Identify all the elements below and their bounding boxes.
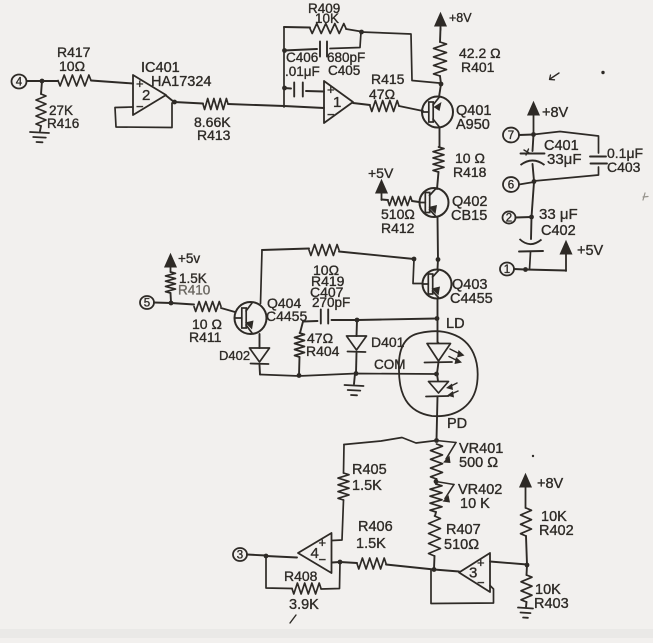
junction LD line (435, 316, 440, 321)
svg-text:R412: R412 (381, 220, 415, 236)
wire to Q403 base (413, 259, 422, 284)
svg-text:C402: C402 (541, 223, 576, 239)
node 6 (503, 177, 534, 192)
svg-text:3.9K: 3.9K (289, 597, 319, 613)
svg-text:2: 2 (506, 213, 512, 225)
capacitor C406 .01uF (284, 50, 324, 97)
ground under R416 (30, 132, 49, 142)
svg-text:+: + (477, 555, 485, 570)
junction node2 (529, 215, 534, 220)
svg-text:R418: R418 (453, 164, 487, 180)
svg-text:510Ω: 510Ω (444, 537, 479, 553)
junction Q401 emitter (439, 82, 444, 87)
node 2 (503, 211, 532, 224)
photodiode PD (426, 374, 467, 440)
op-amp U1 (324, 81, 353, 123)
svg-text:R413: R413 (197, 127, 231, 143)
C401 polarity mark (524, 149, 530, 155)
svg-text:PD: PD (447, 416, 467, 432)
capacitor C401 (521, 135, 582, 182)
IC401 output junction (166, 96, 177, 105)
resistor R407 (429, 512, 481, 569)
junction node5/R410 (169, 301, 174, 306)
resistor R415 (353, 71, 423, 112)
stray mark 2 (601, 71, 604, 74)
svg-text:R405: R405 (352, 462, 387, 478)
wire Q401 collector to R418 (439, 128, 441, 148)
svg-text:R415: R415 (371, 71, 405, 87)
junction R419 wire (412, 257, 417, 262)
stray mark 3 (643, 193, 648, 200)
wire node1 to +5V (526, 270, 567, 271)
svg-text:R408: R408 (284, 568, 318, 584)
resistor R413 (174, 99, 284, 144)
svg-text:R416: R416 (47, 116, 79, 131)
wire opamp3 output (434, 570, 459, 572)
svg-text:7: 7 (508, 130, 514, 142)
svg-text:3: 3 (237, 550, 243, 562)
wire opamp3 plus to divider (490, 562, 527, 565)
node 4 (12, 75, 43, 89)
resistor R402 (521, 508, 574, 565)
diode D402 (219, 334, 270, 375)
resistor R406 (340, 519, 434, 570)
svg-text:C406: C406 (286, 50, 318, 65)
junction node3 (264, 554, 269, 559)
svg-text:1.5K: 1.5K (352, 478, 382, 494)
svg-text:47Ω: 47Ω (369, 86, 395, 102)
svg-text:+5V: +5V (577, 243, 604, 259)
svg-text:500 Ω: 500 Ω (459, 455, 498, 471)
+5V supply Q404 (165, 251, 201, 272)
svg-text:−: − (319, 552, 327, 567)
junction C407/D401 (355, 318, 360, 323)
svg-text:10Ω: 10Ω (59, 58, 85, 74)
svg-text:1: 1 (504, 264, 510, 276)
wire Q404 collector up (261, 250, 263, 304)
svg-text:R404: R404 (306, 343, 340, 359)
capacitor C402 (519, 217, 543, 270)
bypass loop C403 (534, 132, 644, 182)
svg-text:R410: R410 (178, 283, 210, 298)
junction C406 left (282, 86, 287, 91)
resistor R418 (433, 147, 487, 189)
svg-text:C4455: C4455 (450, 291, 493, 307)
stray mark 4 (290, 455, 534, 623)
laser diode LD (425, 316, 465, 374)
svg-text:D401: D401 (371, 334, 405, 350)
wire C407 to LD line (357, 319, 437, 321)
junction D401 bottom (354, 371, 359, 376)
svg-text:−: − (327, 107, 335, 122)
svg-text:4: 4 (16, 77, 23, 89)
node 3 (233, 548, 266, 562)
junction node4/R416 (40, 79, 45, 84)
svg-text:HA17324: HA17324 (151, 74, 211, 90)
junction VR401/VR402 (434, 479, 439, 484)
junction divider (525, 563, 530, 568)
wire feedback to Q401 emitter (361, 32, 439, 83)
node 7 (503, 128, 534, 143)
capacitor C407 270pF (303, 284, 357, 324)
svg-text:R401: R401 (461, 59, 495, 75)
svg-text:C403: C403 (607, 159, 641, 175)
svg-text:CB15: CB15 (451, 208, 487, 224)
op-amp U4 (266, 533, 332, 573)
transistor Q401 (422, 84, 491, 133)
junction C405/R409 right (359, 30, 364, 35)
COM wire (260, 357, 436, 376)
svg-text:+8V: +8V (537, 476, 564, 492)
wire Q402 emitter down (437, 217, 440, 260)
resistor R411 (171, 302, 235, 346)
junction node7 (531, 132, 536, 137)
transistor Q404 (235, 295, 308, 334)
junction C405 left (282, 48, 287, 53)
svg-text:+5V: +5V (368, 165, 394, 181)
junction opamp4 inverting (338, 560, 343, 565)
junction node6 (532, 179, 537, 184)
transistor Q402 (420, 188, 488, 224)
svg-text:+: + (319, 535, 327, 550)
wire feedback left vertical (283, 27, 285, 107)
svg-text:+5v: +5v (178, 251, 200, 266)
node 5 (140, 296, 171, 310)
svg-text:R406: R406 (358, 519, 393, 535)
wire PD junction to R405 (344, 438, 437, 445)
svg-text:1.5K: 1.5K (356, 536, 386, 552)
transistor Q403 (423, 260, 493, 308)
resistor R401 (434, 28, 501, 84)
resistor R417 (42, 44, 133, 86)
potentiometer VR401 (431, 441, 504, 480)
svg-text:270pF: 270pF (312, 295, 350, 310)
resistor R404 (295, 330, 340, 376)
capacitor C402 labels (539, 206, 578, 239)
junction COM (434, 372, 439, 377)
op-amp U2 IC401 (133, 60, 211, 115)
opamp3 feedback loop (431, 570, 494, 604)
+8V supply top (435, 11, 473, 30)
potentiometer VR402 (430, 479, 502, 512)
ground under R403 (518, 608, 533, 618)
svg-text:+8V: +8V (542, 105, 569, 121)
wire opamp4 minus (332, 561, 340, 564)
wire R413 to op-amp 1 (284, 106, 324, 108)
svg-text:C405: C405 (328, 63, 360, 78)
svg-text:33μF: 33μF (547, 151, 582, 168)
resistor R405 (332, 445, 387, 541)
svg-text:A950: A950 (456, 117, 490, 133)
LD emission arrows (449, 349, 465, 364)
svg-text:COM: COM (374, 357, 406, 372)
op-amp U3 (459, 553, 490, 592)
resistor R408 (266, 556, 340, 613)
node 1 (500, 262, 525, 276)
svg-text:33 μF: 33 μF (539, 206, 578, 223)
junction R407/opamp3 (432, 567, 437, 572)
resistor R412 (381, 197, 419, 237)
svg-text:10 K: 10 K (460, 496, 490, 512)
IC401 feedback wire (115, 103, 172, 128)
resistor R409 (284, 1, 361, 34)
svg-text:+8V: +8V (449, 11, 472, 25)
stray mark 1 (550, 73, 560, 80)
diode D401 (347, 320, 405, 373)
svg-text:LD: LD (446, 316, 465, 332)
+5V supply right (560, 241, 603, 271)
svg-text:R403: R403 (534, 596, 569, 612)
PD receiving arrows (446, 383, 458, 398)
wire Q403 emitter to LD (437, 299, 439, 343)
junction Q402/Q403 (436, 257, 441, 262)
+5V supply Q402 (368, 165, 394, 200)
+8V supply right (528, 102, 569, 136)
resistor R419 (262, 245, 414, 290)
resistor R403 (521, 565, 569, 612)
svg-text:R407: R407 (446, 522, 481, 538)
svg-text:−: − (136, 99, 144, 114)
svg-text:.01μF: .01μF (285, 64, 320, 79)
laser package outline (399, 331, 478, 416)
resistor R416 (36, 81, 79, 131)
junction R404 bottom (297, 373, 302, 378)
ground under D401 (345, 374, 364, 396)
capacitor C405 680pF (284, 32, 365, 78)
svg-text:C4455: C4455 (266, 308, 307, 324)
svg-text:D402: D402 (219, 348, 250, 363)
svg-text:10K: 10K (315, 11, 339, 26)
svg-text:R402: R402 (539, 523, 574, 539)
junction PD/VR401 (434, 438, 439, 443)
junction node1 (523, 267, 528, 272)
resistor R410 (166, 271, 211, 303)
wire C407 left to R404 (300, 322, 303, 334)
wire node6 to node2 (532, 182, 535, 217)
svg-text:6: 6 (508, 180, 514, 192)
svg-text:R411: R411 (189, 329, 222, 345)
+8V supply bottom (520, 474, 564, 508)
svg-text:−: − (477, 575, 485, 590)
svg-text:5: 5 (144, 298, 150, 310)
